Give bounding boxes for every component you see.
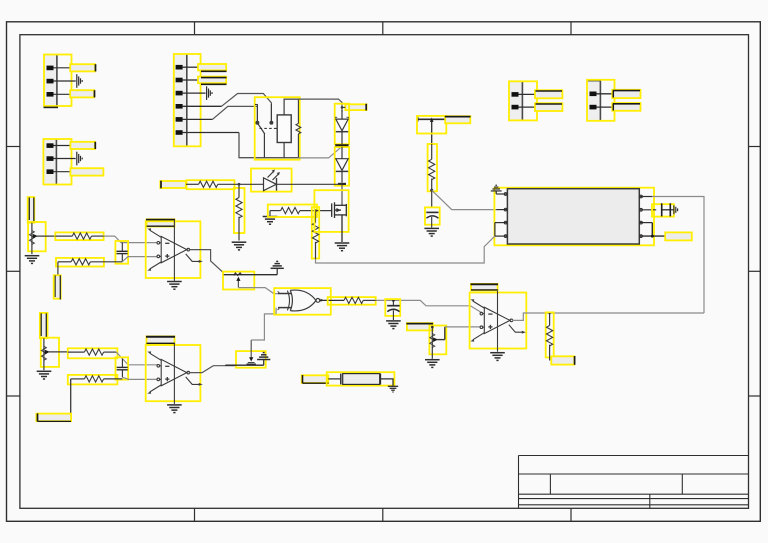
ground on J3 pin 3 [207,86,212,100]
small ground under crystal X1 [388,386,398,392]
junction dot at module R4 [651,235,654,238]
inverted ground near clamp box A [271,261,284,274]
diode D1 [335,110,349,144]
module M1 body [507,189,639,244]
net label port on J1 pin 3 [70,90,94,97]
LED D3 highlight box [251,169,292,192]
wire R1 to C1 node [104,236,123,242]
gate U4 highlight box [274,288,331,315]
diode D2 highlight box [335,147,349,186]
potentiometer RV4 highlight box (top) [417,116,446,134]
resistor R5 [344,297,376,303]
wire R2 to vertical port [57,262,59,276]
connector J1 pin 1 [47,66,71,71]
wire tying module pins L3 and L4 [494,223,496,237]
relay K1 actuator dashed link [260,127,278,129]
zone tick top 2 [382,22,384,35]
op-amp U3 [470,291,526,352]
ground under U2 [167,405,182,413]
capacitor C2 [117,359,128,378]
module M1 highlight box [494,188,654,246]
connector J2 body [43,139,71,185]
resistor R4 [71,376,123,382]
net label port on J2 pin 1 [70,142,95,149]
ground under C4 [424,228,439,236]
gate U4 (XNOR) [278,290,323,311]
op-amp U2 highlight box [146,345,201,401]
wire C2 node to U2 inverting input [122,359,157,366]
resistor R6 highlight box [546,312,554,357]
connector J3 pin 5 [176,117,213,122]
relay K1 parallel element branch [296,99,301,158]
connector J2 pin 1 [47,143,71,148]
connector J1 pin 3 [47,92,71,97]
zone tick top 1 [194,22,196,35]
wire J3 pin6 to relay bottom [239,133,298,158]
relay K1 switch contacts [255,104,273,124]
op-amp U1 [147,220,203,281]
connector J4 pin 1 [512,92,536,97]
crystal X1 net label port [302,375,329,383]
connector J3 pin 1 [176,65,199,70]
wire gate output to R5 [320,299,344,301]
connector J3 pin 2 [176,78,199,83]
power net label above U1 [146,219,175,226]
ground under R8 [232,242,247,250]
module M1 pin R3 [639,221,652,224]
net label port on J4 pin 2 [535,103,562,111]
connector J5 body (2-pin) [587,80,615,121]
zone tick bottom 3 [570,508,572,521]
zone tick top 3 [570,22,572,35]
net label port left of RV3 [406,323,433,330]
ground above module pin L1 [491,185,502,194]
capacitor C5 highlight box [652,204,674,216]
clamp box B arrow [247,340,256,364]
resistor R8 highlight box [234,188,245,233]
clamp box A highlight [223,272,254,290]
zone tick left 2 [7,270,20,272]
wire C1 node to U1 inverting input [121,242,158,244]
zone tick left 1 [7,146,20,148]
wire RV3 wiper to U3 non-inverting input [445,326,481,328]
wire R3 to C2 node [116,352,122,359]
connector J1 pin 2 [47,79,76,84]
zone tick right 3 [749,395,761,397]
zone tick bottom 1 [194,508,196,521]
potentiometer RV4 top tee [417,117,445,144]
crystal X1 highlight box [327,372,395,385]
resistor RV4 body highlight box [428,144,437,191]
rotated ground right of C5 [670,205,677,214]
wire module R1 to right vertical run [652,197,704,314]
junction dot at R6 top [548,312,551,315]
junction dot under RV4 [430,189,433,192]
connector J3 pin 6 [176,130,239,135]
wire relay to diode chain top [284,99,342,112]
wire clamp A to gate input 1 [238,288,278,294]
potentiometer RV2 highlight box [41,338,59,367]
potentiometer RV3 highlight box [429,326,446,355]
relay K1 coil top wire [284,99,298,115]
zone tick bottom 2 [382,508,384,521]
junction dot at R8 top [238,183,241,186]
ground under U3 [490,353,505,361]
capacitor C5 [662,203,671,216]
wire J3 pin4 to relay [222,94,272,123]
net label port at diode chain top [341,104,367,111]
module M1 pin R2 [639,208,656,211]
net label port under R6 [551,356,574,365]
title block [519,456,749,509]
ground under RV2 [37,371,52,379]
resistor R2 highlight box [56,258,104,267]
junction dot at R10 top [314,209,317,212]
designator smear between diodes [335,144,348,147]
ground under U1 [167,282,182,290]
inverted ground near clamp box B [257,353,270,366]
wire R5 to C3 node and onwards [376,300,482,313]
resistor RV4 body (vertical) [429,144,435,207]
connector J5 pin 1 [590,92,614,97]
wire J3 pin5 to relay [212,106,257,122]
clamp box B through wire [225,364,263,366]
zone tick left 3 [7,395,20,397]
resistor R3 [68,349,117,355]
relay K1 highlight box [255,97,300,160]
net label port on J2 pin 3 [70,168,103,175]
ground on J1 pin 2 [77,74,82,88]
net label port right of RV4 [445,116,471,123]
connector J5 pin 2 [590,105,614,110]
resistor R5 highlight box [328,297,376,305]
ground left of R9 [263,211,281,225]
module M1 pin R4 [639,235,665,238]
connector J4 body (2-pin) [509,81,537,120]
vertical net label port above RV2 [40,313,48,338]
vertical net label port below R2 [54,275,61,299]
potentiometer RV1 [29,223,55,255]
net label port at module R4 [665,232,692,240]
resistor R9 [281,208,332,214]
wire U2 output [189,366,236,373]
resistor R9 highlight box [268,205,317,218]
wire C1 to U1 non-inverting input [122,257,157,262]
vertical net label port above RV1 [28,197,35,223]
wire diode chain to mosfet [341,185,343,204]
module M1 pin L1 [496,193,507,196]
net label port on J1 pin 1 [70,64,95,71]
net label port on J5 pin 2 [612,103,640,111]
wire RV4 to module pin L2 [432,190,497,209]
junction dot at C3 [392,299,395,302]
wire C2 to U2 non-inverting input [122,377,157,379]
diode D2 [336,147,348,183]
resistor R8 (vertical) [236,184,242,240]
resistor R7 [186,181,239,187]
potentiometer RV3 [430,327,445,359]
power net label above U3 [471,284,499,290]
diode D1 highlight box [335,104,349,145]
zone tick right 1 [749,146,761,148]
connector J3 body (6-pin) [174,54,201,146]
connector J2 pin 2 [47,156,76,161]
net label port on J3 pin 1 [198,64,227,71]
ground under RV3 [425,360,440,368]
resistor R4 highlight box [68,375,118,385]
clamp box A through wire [224,274,278,276]
designator text smear J1 [44,107,59,109]
wire module L4 to long bottom run [316,236,495,263]
module M1 pin L4 [495,235,508,238]
junction smear at LED node [338,183,346,185]
capacitor C1 highlight box [115,241,128,264]
net label port on J3 pin 2 [198,77,227,85]
connector J3 pin 4 [176,104,222,109]
capacitor C1 [117,243,128,262]
wire clamp B arrow up to gate input 2 [251,308,276,340]
relay K1 common wire [263,134,265,158]
connector J2 pin 3 [47,169,71,174]
wire U3 output [512,313,704,320]
wire relay bottom to diode chain mid [298,147,341,158]
net label port on J4 pin 1 [535,90,562,98]
relay K1 coil box [277,115,291,143]
connector J3 pin 3 [176,91,206,96]
potentiometer RV1 highlight box [28,222,46,251]
op-amp U3 highlight box [470,293,527,349]
capacitor C3 highlight box [385,299,400,316]
capacitor C4 highlight box [425,207,440,224]
wire R4 to bottom port [69,379,72,414]
resistor R1 [55,233,103,239]
crystal X1 [328,374,393,386]
module M1 pin L2 [496,208,507,211]
capacitor C3 (polarized) [387,300,399,320]
resistor R10 (vertical) [312,211,318,260]
mosfet Q1 [332,202,347,242]
net label port on J5 pin 1 [612,90,640,98]
mosfet Q1 highlight box [314,190,348,232]
connector J4 pin 2 [512,105,536,110]
capacitor C4 (polarized) [426,212,438,227]
resistor R3 highlight box [68,348,118,358]
relay K1 switch arm [257,123,264,134]
ground under C3 [386,321,401,329]
op-amp U1 highlight box [146,221,201,278]
net label port bottom left [36,413,71,421]
resistor R7 highlight box [187,180,235,189]
clamp box A arrow [236,277,240,288]
capacitor C2 highlight box [116,357,129,379]
clamp box B highlight [236,351,266,368]
wire U1 output [189,250,224,273]
connector J1 body [44,55,72,107]
resistor R1 highlight box [55,232,103,240]
zone tick right 2 [749,270,761,272]
module M1 pin R1 [639,195,652,198]
module M1 pin L3 [495,221,508,224]
power net label above U2 [146,336,175,343]
resistor R6 (vertical) [547,313,553,361]
clamp box A designator smear [234,273,242,276]
ground on J2 pin 2 [77,152,82,166]
op-amp U2 [147,343,203,404]
net label port left of R7 [160,181,186,189]
relay K1 coil bottom wire [283,143,285,158]
resistor R10 highlight box [312,207,319,258]
resistor R2 [58,259,122,265]
LED D3 [239,170,342,191]
wire module R3 down to R4 [651,223,653,237]
potentiometer RV2 [41,338,67,370]
ground under mosfet Q1 [335,243,350,251]
ground under RV1 [25,256,40,264]
